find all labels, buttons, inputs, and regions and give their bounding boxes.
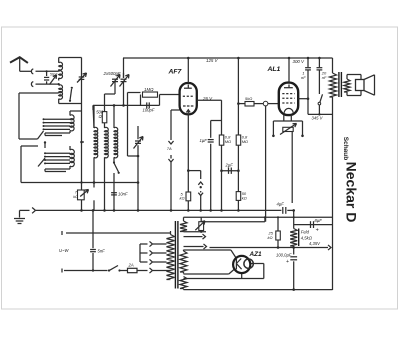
svg-text:+: + bbox=[286, 259, 289, 265]
svg-text:1MΩ: 1MΩ bbox=[144, 87, 154, 92]
svg-text:5nF: 5nF bbox=[98, 249, 106, 254]
svg-text:Schaub: Schaub bbox=[342, 137, 349, 161]
svg-text:nF: nF bbox=[322, 75, 327, 80]
svg-text:kΩ: kΩ bbox=[242, 195, 247, 200]
svg-text:AF7: AF7 bbox=[168, 69, 183, 76]
svg-text:4,5kΩ: 4,5kΩ bbox=[301, 236, 313, 241]
svg-text:8µF: 8µF bbox=[315, 218, 323, 223]
svg-text:345 V: 345 V bbox=[312, 116, 324, 121]
svg-text:Feld: Feld bbox=[301, 230, 310, 235]
svg-text:kΩ: kΩ bbox=[268, 235, 273, 240]
svg-text:U~W: U~W bbox=[59, 248, 69, 253]
svg-text:100,0µF: 100,0µF bbox=[276, 253, 292, 258]
svg-text:2A: 2A bbox=[128, 263, 134, 268]
svg-text:kΩ: kΩ bbox=[73, 195, 78, 199]
svg-text:1µF: 1µF bbox=[200, 138, 208, 143]
svg-text:kΩ: kΩ bbox=[180, 196, 185, 201]
svg-text:5kΩ: 5kΩ bbox=[245, 96, 252, 101]
svg-text:MΩ: MΩ bbox=[242, 139, 248, 144]
svg-text:AL1: AL1 bbox=[267, 66, 281, 73]
svg-text:7A: 7A bbox=[167, 146, 172, 151]
svg-text:100pF: 100pF bbox=[143, 108, 155, 113]
svg-text:300 V: 300 V bbox=[293, 59, 306, 64]
svg-text:50pF: 50pF bbox=[50, 73, 59, 77]
svg-text:125 V: 125 V bbox=[206, 58, 219, 63]
svg-text:4,35V: 4,35V bbox=[309, 241, 321, 246]
svg-text:Neckar D: Neckar D bbox=[343, 162, 359, 223]
svg-text:MΩ: MΩ bbox=[225, 139, 231, 144]
svg-text:2µF: 2µF bbox=[225, 163, 234, 168]
svg-text:4µF: 4µF bbox=[277, 202, 285, 207]
svg-text:nF: nF bbox=[301, 75, 306, 80]
svg-text:AZ1: AZ1 bbox=[249, 251, 263, 258]
svg-text:10nF: 10nF bbox=[118, 192, 128, 197]
